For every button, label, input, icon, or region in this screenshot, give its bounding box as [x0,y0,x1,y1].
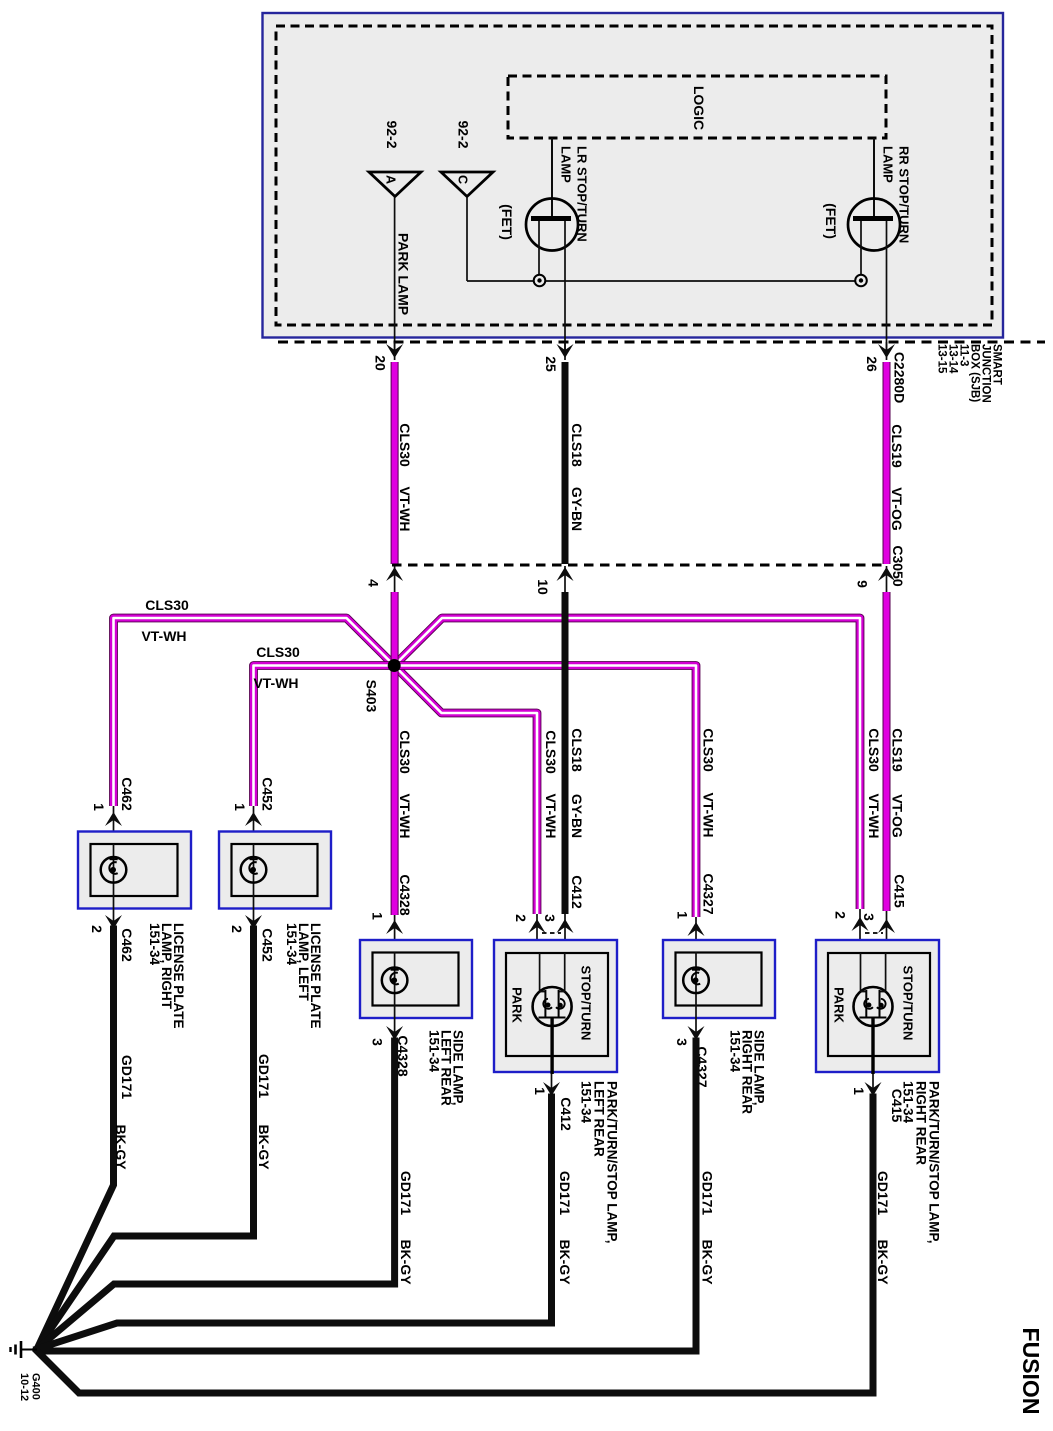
svg-text:CLS30: CLS30 [397,730,413,774]
svg-text:CLS30: CLS30 [256,644,300,660]
wire from triangle A (PARK LAMP) to pin 20 [394,197,396,352]
svg-text:1: 1 [675,911,691,919]
svg-text:92-2: 92-2 [456,120,472,148]
svg-text:GD171: GD171 [700,1171,716,1216]
svg-text:CLS30: CLS30 [866,728,882,772]
C4327 arrow pin 1 [695,917,697,940]
svg-text:LOGIC: LOGIC [691,86,707,130]
svg-text:1: 1 [91,803,107,811]
wire CLS19 VT-OG from pin 26 [883,362,891,564]
bulb side right [695,952,697,1005]
svg-text:GD171: GD171 [557,1171,573,1216]
license left lower pin 2 arrow [253,896,255,926]
svg-text:2: 2 [513,914,529,922]
svg-text:BK-GY: BK-GY [875,1239,891,1285]
svg-text:BK-GY: BK-GY [398,1239,414,1285]
pin 10 arrow [564,566,566,592]
svg-text:GD171: GD171 [119,1055,135,1100]
ground wire GD171 BK-GY from C4328 [37,1041,395,1349]
pin 9 arrow [886,566,888,592]
svg-text:GD171: GD171 [875,1171,891,1216]
svg-text:(FET): (FET) [499,204,515,240]
svg-text:C: C [456,175,470,184]
svg-text:CLS18: CLS18 [569,423,585,467]
svg-text:2: 2 [89,925,105,933]
C4328 arrow pin 1 [394,915,396,940]
svg-text:C415: C415 [892,874,908,908]
license plate lamp right box [78,832,191,909]
svg-text:C452: C452 [260,777,276,811]
svg-text:STOP/TURN: STOP/TURN [579,966,594,1041]
side left lower pin 3 arrow [394,1005,396,1038]
svg-text:C412: C412 [558,1097,574,1131]
LOGIC block [508,76,886,138]
svg-text:PARK: PARK [510,987,525,1023]
svg-text:C3050: C3050 [890,545,906,586]
park/turn/stop lamp right rear box [816,940,939,1072]
junction ring on LR source [534,275,546,287]
ground wire GD171 BK-GY from C415 [37,1097,873,1393]
svg-text:LR STOP/TURN: LR STOP/TURN [575,146,590,242]
wire CLS30 branch to left rear park (C412 pin 2) [394,666,537,915]
svg-text:C412: C412 [569,875,585,909]
svg-text:151-34: 151-34 [284,923,299,966]
svg-text:92-2: 92-2 [384,120,400,148]
svg-text:BK-GY: BK-GY [700,1239,716,1285]
wire CLS30 VT-WH from pin 20 [391,362,399,564]
svg-text:10: 10 [535,579,551,595]
svg-text:3: 3 [542,914,558,922]
svg-text:C452: C452 [260,928,276,962]
svg-text:26: 26 [864,356,880,372]
wire CLS19 VT-OG continued to C415 pin 3 [883,592,891,911]
connector C2280D dashed line [278,341,1045,344]
FET RR transistor [848,199,900,251]
svg-text:LAMP: LAMP [881,146,896,183]
LR FET gate wire from LOGIC [551,138,553,217]
pin 4 arrow [394,566,396,592]
park/turn left lower pin 1 arrow [551,1074,553,1094]
license plate lamp left box [219,832,331,909]
side lamp left rear box [360,940,472,1018]
svg-text:S403: S403 [364,680,380,713]
svg-text:151-34: 151-34 [579,1081,594,1124]
svg-text:CLS30: CLS30 [543,730,559,774]
svg-text:VT-WH: VT-WH [701,792,717,837]
svg-text:4: 4 [366,579,382,587]
svg-text:PARK LAMP: PARK LAMP [396,233,412,315]
wire CLS18 GY-BN continued to C412 pin 3 [562,592,569,914]
svg-text:CLS30: CLS30 [701,728,717,772]
wire from triangle C down and right to FET sources [466,197,468,281]
junction ring on RR source [855,275,867,287]
svg-text:BK-GY: BK-GY [113,1124,129,1170]
svg-text:VT-WH: VT-WH [253,675,298,691]
svg-text:20: 20 [373,355,389,371]
svg-text:2: 2 [833,911,849,919]
wire CLS30 branch to license lamp right (C462) [114,618,395,806]
svg-text:VT-WH: VT-WH [141,628,186,644]
svg-text:GD171: GD171 [256,1054,272,1099]
C415 arrows pins 2 and 3 [859,909,861,940]
svg-text:3: 3 [370,1038,386,1046]
svg-text:BK-GY: BK-GY [557,1239,573,1285]
ground G400 symbol [21,1349,37,1351]
svg-text:151-34: 151-34 [901,1081,916,1124]
svg-text:C2280D: C2280D [892,352,908,403]
svg-text:25: 25 [543,356,559,372]
svg-text:VT-OG: VT-OG [890,794,906,838]
svg-text:VT-OG: VT-OG [889,487,905,531]
ground wire GD171 BK-GY from C412 [37,1097,552,1349]
bulb side left [394,952,396,1005]
pin 20 arrow [386,344,403,358]
splice S403 dot [388,659,401,672]
ground wire GD171 BK-GY from C462 [37,929,114,1349]
svg-text:G400: G400 [30,1373,42,1400]
svg-text:GY-BN: GY-BN [569,794,585,838]
svg-text:RR STOP/TURN: RR STOP/TURN [897,146,912,243]
svg-text:CLS18: CLS18 [569,728,585,772]
svg-text:3: 3 [861,913,877,921]
ground wire GD171 BK-GY from C452 [37,929,254,1349]
wire CLS30 branch to side lamp right (C4327) [394,666,696,918]
svg-text:CLS30: CLS30 [145,597,189,613]
svg-text:1: 1 [232,803,248,811]
wire CLS30 branch to license lamp left (C452) [254,666,395,807]
connector triangle C [441,172,493,197]
svg-text:VT-WH: VT-WH [866,793,882,838]
svg-text:A: A [384,175,398,184]
svg-text:CLS19: CLS19 [889,424,905,468]
svg-text:C462: C462 [119,777,135,811]
svg-text:PARK: PARK [832,987,847,1023]
bulb license right [113,844,115,896]
smart junction box SJB outline [263,13,1004,338]
park/turn/stop lamp left rear box [494,940,617,1072]
pin 25 arrow [557,344,574,358]
FET LR transistor [526,199,578,251]
svg-text:13-15: 13-15 [936,344,948,374]
connector triangle A [369,172,421,197]
svg-text:CLS19: CLS19 [890,728,906,772]
dual filament bulb left rear [539,953,541,992]
svg-text:GD171: GD171 [398,1171,414,1216]
svg-text:VT-WH: VT-WH [397,486,413,531]
svg-text:(FET): (FET) [823,203,839,239]
svg-text:1: 1 [532,1087,548,1095]
svg-text:BK-GY: BK-GY [256,1124,272,1170]
svg-text:FUSION: FUSION [1018,1328,1044,1415]
svg-text:C4327: C4327 [701,873,717,914]
svg-text:VT-WH: VT-WH [543,793,559,838]
connector C3050 dashed line [392,564,888,567]
park/turn right lower pin 1 arrow [872,1074,874,1094]
wire CLS30 VT-WH through splice to side lamp left [391,592,399,915]
wire CLS30 branch to right rear park (C415 pin 2) [394,618,860,909]
C452 wire end arrow pin 1 [253,806,255,831]
side right lower pin 3 arrow [695,1005,697,1038]
svg-text:151-34: 151-34 [427,1030,442,1073]
svg-text:151-34: 151-34 [728,1030,743,1073]
ground wire GD171 BK-GY from C4327 [42,1041,696,1351]
wire CLS18 GY-BN from pin 25 [562,362,569,564]
svg-text:1: 1 [851,1087,867,1095]
svg-text:GY-BN: GY-BN [569,487,585,531]
svg-text:3: 3 [674,1038,690,1046]
svg-text:9: 9 [855,580,871,588]
svg-text:151-34: 151-34 [147,923,162,966]
svg-text:10-12: 10-12 [18,1373,30,1401]
pin 26 arrow [878,344,895,358]
svg-text:C462: C462 [119,928,135,962]
svg-text:1: 1 [370,912,386,920]
svg-text:C4328: C4328 [397,874,413,915]
RR FET gate wire from LOGIC [873,138,875,217]
svg-text:2: 2 [229,925,245,933]
bulb license left [253,844,255,896]
side lamp right rear box [663,940,775,1018]
svg-text:VT-WH: VT-WH [397,793,413,838]
C412 arrows pins 2 and 3 [536,914,538,940]
svg-text:CLS30: CLS30 [397,423,413,467]
svg-text:LAMP: LAMP [559,146,574,183]
svg-text:STOP/TURN: STOP/TURN [901,966,916,1041]
C462 wire end arrow pin 1 [113,806,115,831]
dual filament bulb right rear [860,953,862,992]
license right lower pin 2 arrow [113,896,115,926]
